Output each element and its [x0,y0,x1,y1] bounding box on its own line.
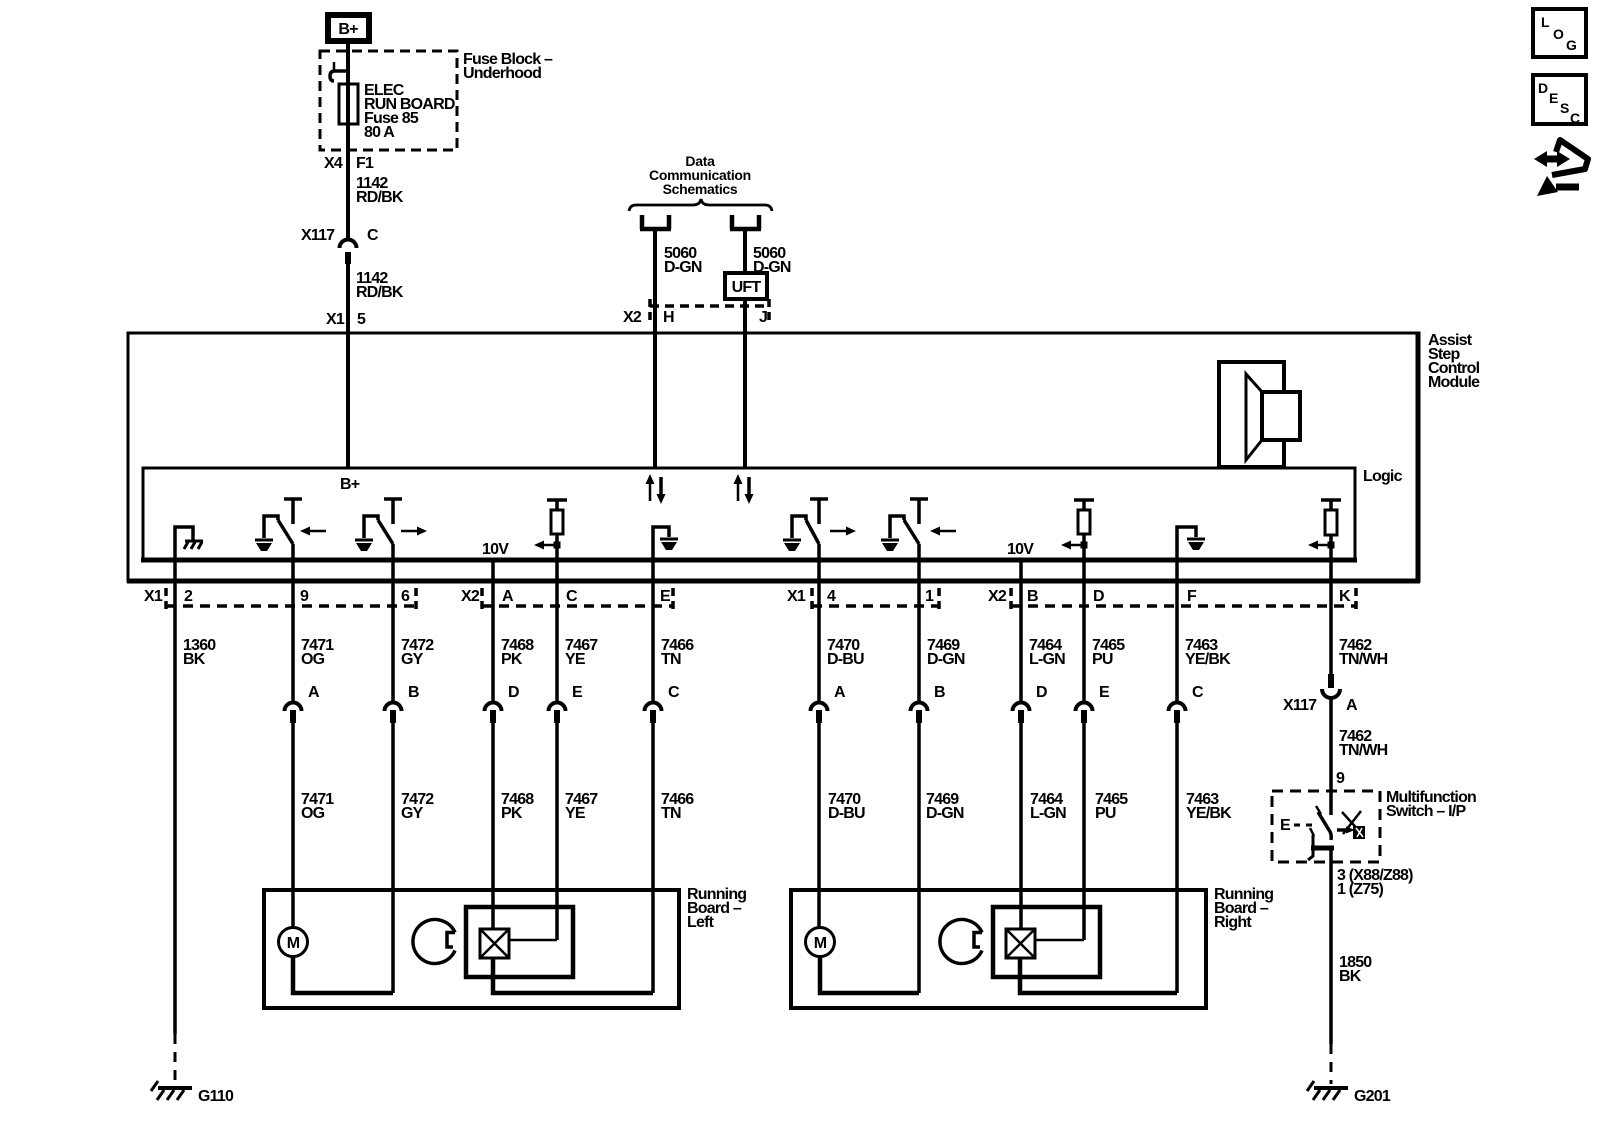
svg-text:9: 9 [300,588,309,605]
wire: 7469 D-GN to motor right return [917,723,921,993]
arrow right (S3 direction) [830,527,856,536]
wire label 1360 BK [183,637,216,668]
svg-text:F1: F1 [356,155,374,172]
in-line connector terminal A right (7470) [811,703,828,724]
wire: 1850 BK dashed to ground [1330,1044,1333,1084]
label: Assist Step Control Module [1428,332,1480,391]
svg-text:J: J [759,309,767,326]
wire: 7465 PU (pin D) above connector [1082,560,1086,701]
in-line connector terminal E right (7465) [1076,703,1093,724]
svg-text:D: D [1093,588,1104,605]
speaker / chime icon inside module [1219,362,1300,467]
svg-text:1: 1 [925,588,934,605]
off-page fork terminal H [640,215,671,229]
svg-text:X2: X2 [988,588,1007,605]
wire label 7472 GY [401,637,434,668]
label: X117 C [301,227,379,244]
svg-text:D: D [1036,684,1047,701]
svg-text:C: C [367,227,379,244]
resistor sense (pin X2-K) [1308,500,1341,560]
switch S1 retract (pin X1-9) [255,499,302,560]
wire label row2 7468 PK [501,791,534,822]
svg-text:D: D [1538,80,1548,96]
svg-text:BK: BK [183,651,206,668]
wire label 5060 D-GN (H) [664,245,702,276]
svg-text:X4: X4 [324,155,343,172]
wire: 1142 RD/BK from X117 to module pin X1-5 [346,264,350,468]
wire: 5060 D-GN serial data J [743,231,747,468]
wire: 7465 PU to position sensor right [1082,723,1086,940]
wire label row2 7467 YE [565,791,598,822]
svg-text:M: M [287,935,300,952]
label: Data Communication Schematics [649,153,751,197]
in-line connector terminal C (7466) [645,703,662,724]
wire label 7469 D-GN [927,637,965,668]
svg-text:2: 2 [184,588,193,605]
svg-text:B: B [934,684,945,701]
svg-text:O: O [1553,26,1564,42]
in-line connector terminal C right (7463) [1169,703,1186,724]
wire: 7468 PK to position sensor left [491,723,495,930]
wire label 1142 RD/BK (above X117) [356,175,404,206]
wire label 7471 OG [301,637,334,668]
svg-text:RD/BK: RD/BK [356,189,404,206]
svg-text:D-GN: D-GN [926,805,964,822]
position sensor block left [466,907,573,977]
wire label row2 7464 L-GN [1030,791,1066,822]
wire: 7466 TN (pin E) above connector [651,560,655,701]
label: Running Board - Left [687,886,746,931]
svg-text:X2: X2 [461,588,480,605]
svg-text:A: A [834,684,846,701]
svg-text:X1: X1 [787,588,806,605]
svg-text:D-GN: D-GN [927,651,965,668]
wire: 7463 YE/BK (pin F) above connector [1175,560,1179,701]
wire label row2 7469 D-GN [926,791,964,822]
in-line connector X117 terminal A [1322,674,1340,698]
svg-text:B+: B+ [340,476,360,493]
wire: sensor right output loop to C [1020,958,1177,993]
svg-text:G201: G201 [1354,1088,1391,1105]
svg-text:E: E [1099,684,1110,701]
bus bar terminal hook inside fuse block [330,71,348,81]
svg-text:80 A: 80 A [364,124,395,141]
wire: B+ feed 1142 RD/BK from B+ box to X117 [346,44,350,240]
svg-text:F: F [1187,588,1197,605]
wire label 7466 TN [661,637,694,668]
dashed connector face lines under module [166,588,1356,612]
wire label 7467 YE [565,637,598,668]
svg-text:C: C [1570,110,1580,126]
svg-text:D-GN: D-GN [664,259,702,276]
wire: 7468 PK (pin A) above connector [491,560,495,701]
in-line connector X117 terminal C [340,240,357,265]
logic chassis ground leg (pin X1-2) [175,527,203,560]
svg-text:TN: TN [661,805,681,822]
multifunction switch lower contact hook [1308,828,1334,860]
svg-text:Right: Right [1214,914,1252,931]
svg-text:BK: BK [1339,968,1362,985]
svg-text:A: A [308,684,320,701]
multifunction switch contact E with mechanical dashes [1280,817,1318,834]
position sensor block right [993,907,1100,977]
svg-text:10V: 10V [482,541,509,558]
in-line connector terminal A (7471) [285,703,302,724]
svg-text:YE/BK: YE/BK [1185,651,1231,668]
switch S4 retract (pin X1-1) [881,499,928,560]
svg-text:G: G [1566,37,1577,53]
Running Board - Left box [264,890,679,1008]
svg-text:Switch – I/P: Switch – I/P [1386,803,1466,820]
GMLAN data arrows (J wire) [734,474,754,504]
svg-text:TN/WH: TN/WH [1339,742,1388,759]
svg-text:C: C [668,684,680,701]
svg-text:D-BU: D-BU [827,651,864,668]
svg-text:S: S [1560,100,1569,116]
svg-text:X1: X1 [144,588,163,605]
svg-text:C: C [1192,684,1204,701]
wire: 7464 L-GN (pin B) above connector [1019,560,1023,701]
wire label 7462 TN/WH (above X117) [1339,637,1388,668]
wire: 7467 YE to position sensor left [555,723,559,940]
label: Multifunction Switch - I/P [1386,789,1476,820]
tool navigation icon [1534,140,1588,196]
svg-text:PK: PK [501,805,523,822]
label: X2 H J pin row [623,309,767,326]
svg-text:C: C [566,588,578,605]
svg-text:5: 5 [357,311,366,328]
wire: 1360 BK dashed to ground [174,1034,177,1084]
svg-text:H: H [663,309,674,326]
svg-text:Module: Module [1428,374,1480,391]
switch S3 extend (pin X1-4) [783,499,828,560]
wire: 7471 OG to motor left [291,723,295,928]
svg-text:6: 6 [401,588,410,605]
wire label row2 7470 D-BU [828,791,865,822]
UFT box on J wire [725,273,767,299]
GMLAN data arrows (H wire) [646,474,666,504]
wire: 7471 OG (pin 9) above connector [291,560,295,701]
motor M left [279,928,308,957]
arrow left (S4 direction) [930,527,956,536]
wire: 7470 D-BU to motor right [817,723,821,928]
module pin labels row X1/X2 [144,588,1351,605]
wire label 1850 BK [1339,954,1372,985]
svg-text:X1: X1 [326,311,345,328]
in-line connector terminal D (7468) [485,703,502,724]
svg-text:OG: OG [301,805,325,822]
position sensor rotor right (notched circle) [940,920,982,964]
switch S2 extend (pin X1-6) [355,499,402,560]
in-line connector terminal B (7472) [385,703,402,724]
svg-text:Left: Left [687,914,715,931]
label: Fuse Block - Underhood [463,51,553,82]
brace under Data Communication Schematics [629,199,772,211]
svg-text:TN: TN [661,651,681,668]
svg-text:OG: OG [301,651,325,668]
wire: motor left bottom loop to terminal B [293,956,393,993]
svg-text:K: K [1339,588,1351,605]
wire: 7472 GY to motor left return [391,723,395,993]
wire label row2 7463 YE/BK [1186,791,1232,822]
svg-text:10V: 10V [1007,541,1034,558]
fuse block underhood dashed box [320,51,457,150]
wire: 5060 D-GN serial data H [653,231,657,468]
svg-text:UFT: UFT [732,279,762,296]
svg-text:D-BU: D-BU [828,805,865,822]
svg-text:GY: GY [401,651,424,668]
svg-text:Schematics: Schematics [663,181,738,197]
wire label 5060 D-GN (J) [753,245,791,276]
svg-text:A: A [502,588,514,605]
battery positive voltage B+ terminal [328,15,369,41]
Running Board - Right box [791,890,1206,1008]
in-line connector terminal B right (7469) [911,703,928,724]
position sensor rotor left (notched circle) [413,920,455,964]
Logic box inside module [141,468,1357,560]
label: ELEC RUN BOARD Fuse 65 30 A [364,82,455,141]
wire label row2 7465 PU [1095,791,1128,822]
svg-text:PU: PU [1092,651,1113,668]
LOG navigation icon [1533,9,1586,57]
svg-text:YE: YE [565,805,586,822]
svg-text:M: M [814,935,827,952]
wire: 7463 YE/BK to position sensor return right [1175,723,1179,993]
svg-text:X2: X2 [623,309,642,326]
wire: 7466 TN to position sensor return left [651,723,655,993]
svg-text:YE: YE [565,651,586,668]
svg-text:GY: GY [401,805,424,822]
svg-text:4: 4 [827,588,836,605]
wire label 7464 L-GN [1029,637,1065,668]
in-line connector terminal D right (7464) [1013,703,1030,724]
wire: sensor left output loop to C [493,958,653,993]
wire: from switch bar down out of box [1329,848,1333,1044]
DESC navigation icon [1533,75,1586,126]
wire label 7468 PK [501,637,534,668]
wire label 7462 TN/WH (below X117) [1339,728,1388,759]
wire: motor right bottom loop to terminal B [820,956,919,993]
svg-text:9: 9 [1336,770,1345,787]
wire label row2 7466 TN [661,791,694,822]
svg-text:1 (Z75): 1 (Z75) [1337,881,1383,898]
wire: 7462 TN/WH to multifunction switch [1329,698,1333,815]
off-page fork terminal J [730,215,761,229]
wire: 1360 BK ground wire (pin 2) [173,560,177,1034]
wire: 7469 D-GN (pin 1) above connector [917,560,921,701]
svg-text:PK: PK [501,651,523,668]
Assist Step Control Module box [127,332,1420,582]
label: module pin X1 5 [326,311,366,328]
svg-text:Logic: Logic [1363,468,1403,485]
svg-text:A: A [1346,697,1358,714]
svg-text:YE/BK: YE/BK [1186,805,1232,822]
svg-text:X117: X117 [1283,697,1317,714]
arrow right (S2 direction) [401,527,427,536]
dashed connector bracket X2 H J [650,299,769,323]
ground G110 (chassis) [151,1081,192,1100]
wire label 7463 YE/BK [1185,637,1231,668]
label: Running Board - Right [1214,886,1273,931]
multifunction switch blade [1316,806,1331,840]
label: 3 (X88/Z88) / 1 (Z75) [1337,867,1413,898]
wire: sensor right supply link to E [1035,939,1084,942]
hall sensor element X left [480,929,509,958]
svg-text:E: E [660,588,671,605]
svg-text:TN/WH: TN/WH [1339,651,1388,668]
resistor sense (pin X2-D) [1061,500,1094,560]
arrow left (S1 direction) [300,527,326,536]
svg-text:L-GN: L-GN [1030,805,1066,822]
svg-text:D: D [508,684,519,701]
wire: sensor left supply link to E [509,939,557,942]
momentary switch icon (arrows) [1337,811,1365,839]
svg-text:X117: X117 [301,227,335,244]
wire label row2 7472 GY [401,791,434,822]
wire label 1142 RD/BK (below X117) [356,270,404,301]
wire: 7470 D-BU (pin 4) above connector [817,560,821,701]
Multifunction Switch - I/P dashed box [1272,791,1380,862]
svg-text:RD/BK: RD/BK [356,284,404,301]
svg-text:B: B [408,684,419,701]
svg-text:L: L [1541,14,1550,30]
wire label 7465 PU [1092,637,1125,668]
svg-text:PU: PU [1095,805,1116,822]
svg-text:B: B [1027,588,1038,605]
wire: 7462 TN/WH (pin K) above X117 [1329,560,1333,678]
fuse F1 ELEC RUN BOARD 30A [339,84,358,124]
svg-text:L-GN: L-GN [1029,651,1065,668]
logic ground leg (pin X2-F) [1177,527,1205,560]
svg-text:E: E [572,684,583,701]
motor M right [806,928,835,957]
logic ground leg (pin X2-E) [653,527,678,560]
hall sensor element X right [1006,929,1035,958]
wire label row2 7471 OG [301,791,334,822]
svg-text:G110: G110 [198,1088,234,1105]
in-line connector terminal E (7467) [549,703,566,724]
wire: 7472 GY (pin 6) above connector [391,560,395,701]
svg-text:E: E [1280,817,1291,834]
svg-text:Underhood: Underhood [463,65,541,82]
wire: 7464 L-GN to position sensor right [1019,723,1023,930]
wire: 7467 YE (pin C) above connector [555,560,559,701]
svg-text:B+: B+ [338,21,358,38]
ground G201 (chassis) [1307,1081,1348,1100]
label: X117 A [1283,697,1358,714]
label: X4 F1 pin row [324,155,374,172]
svg-text:E: E [1549,90,1558,106]
wire label 7470 D-BU [827,637,864,668]
resistor sense (pin X2-C) [534,500,567,560]
